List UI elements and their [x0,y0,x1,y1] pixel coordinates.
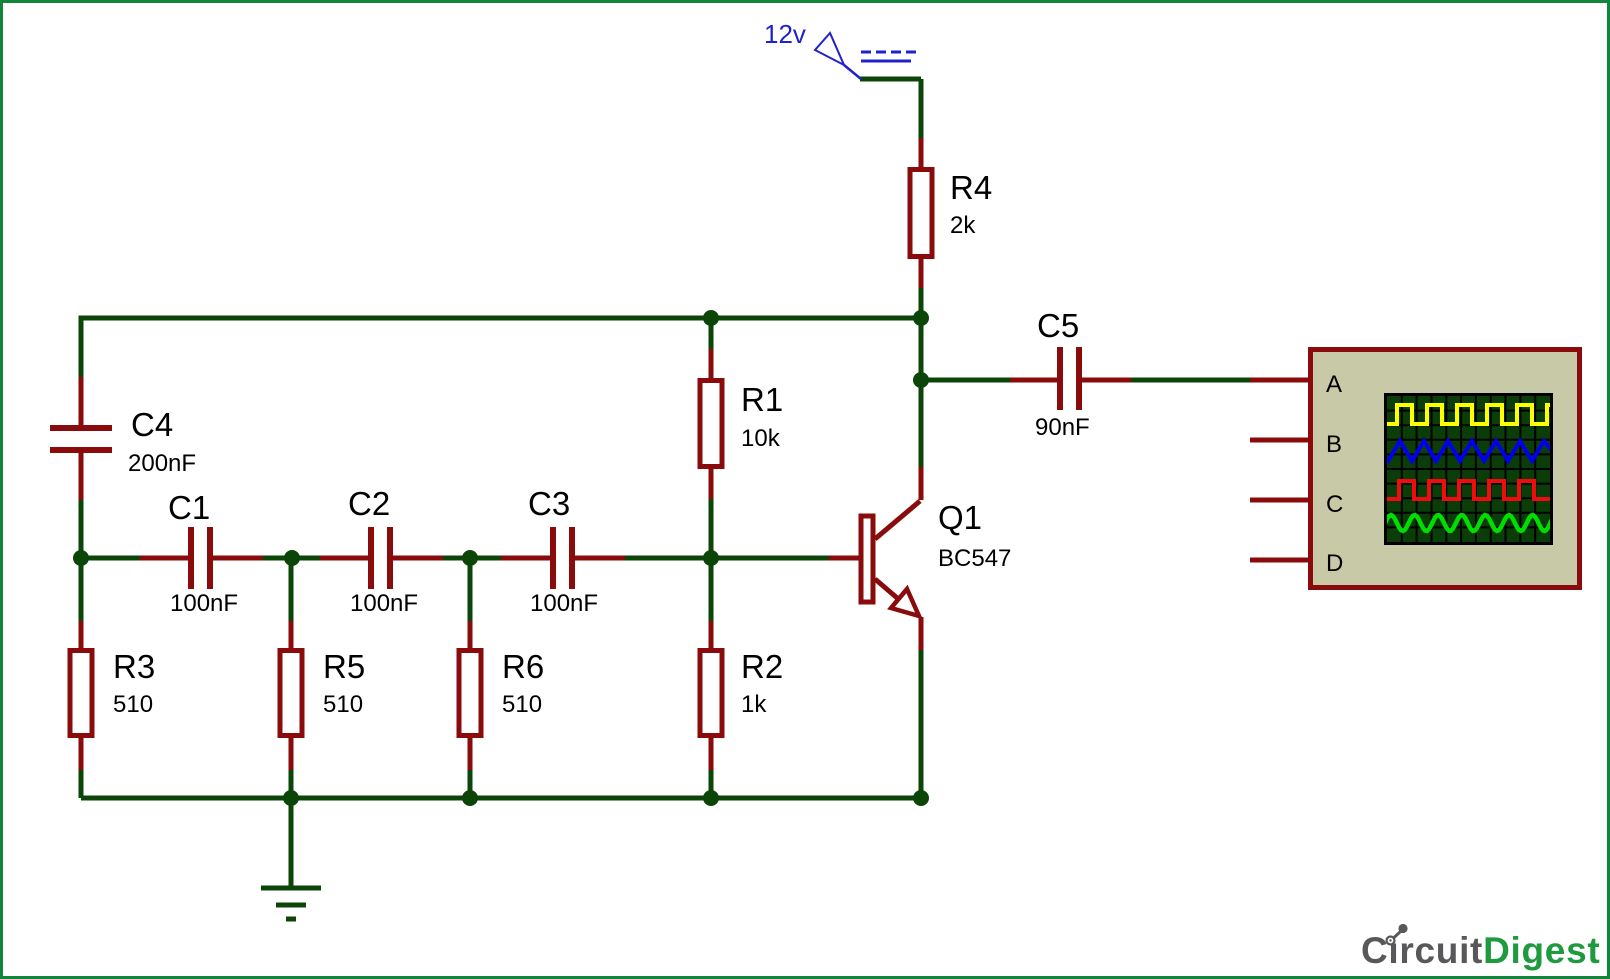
svg-text:C2: C2 [348,485,390,522]
svg-text:C4: C4 [131,406,173,443]
svg-text:100nF: 100nF [170,590,238,617]
svg-text:510: 510 [323,691,363,718]
svg-text:C5: C5 [1037,307,1079,344]
svg-text:200nF: 200nF [128,450,196,477]
svg-text:C: C [1326,491,1343,518]
svg-text:510: 510 [502,691,542,718]
svg-text:10k: 10k [741,425,781,452]
svg-text:R3: R3 [113,648,155,685]
svg-text:B: B [1326,431,1342,458]
svg-text:100nF: 100nF [350,590,418,617]
svg-text:D: D [1326,550,1343,577]
svg-text:R4: R4 [950,169,992,206]
svg-text:R2: R2 [741,648,783,685]
svg-text:A: A [1326,371,1342,398]
svg-text:1k: 1k [741,691,767,718]
svg-text:C1: C1 [168,489,210,526]
svg-text:R5: R5 [323,648,365,685]
svg-text:C3: C3 [528,485,570,522]
svg-text:510: 510 [113,691,153,718]
svg-text:12v: 12v [764,19,806,49]
svg-text:2k: 2k [950,212,976,239]
svg-text:90nF: 90nF [1035,414,1090,441]
svg-text:R1: R1 [741,381,783,418]
svg-text:R6: R6 [502,648,544,685]
svg-text:BC547: BC547 [938,545,1011,572]
svg-text:100nF: 100nF [530,590,598,617]
svg-text:Q1: Q1 [938,499,982,536]
